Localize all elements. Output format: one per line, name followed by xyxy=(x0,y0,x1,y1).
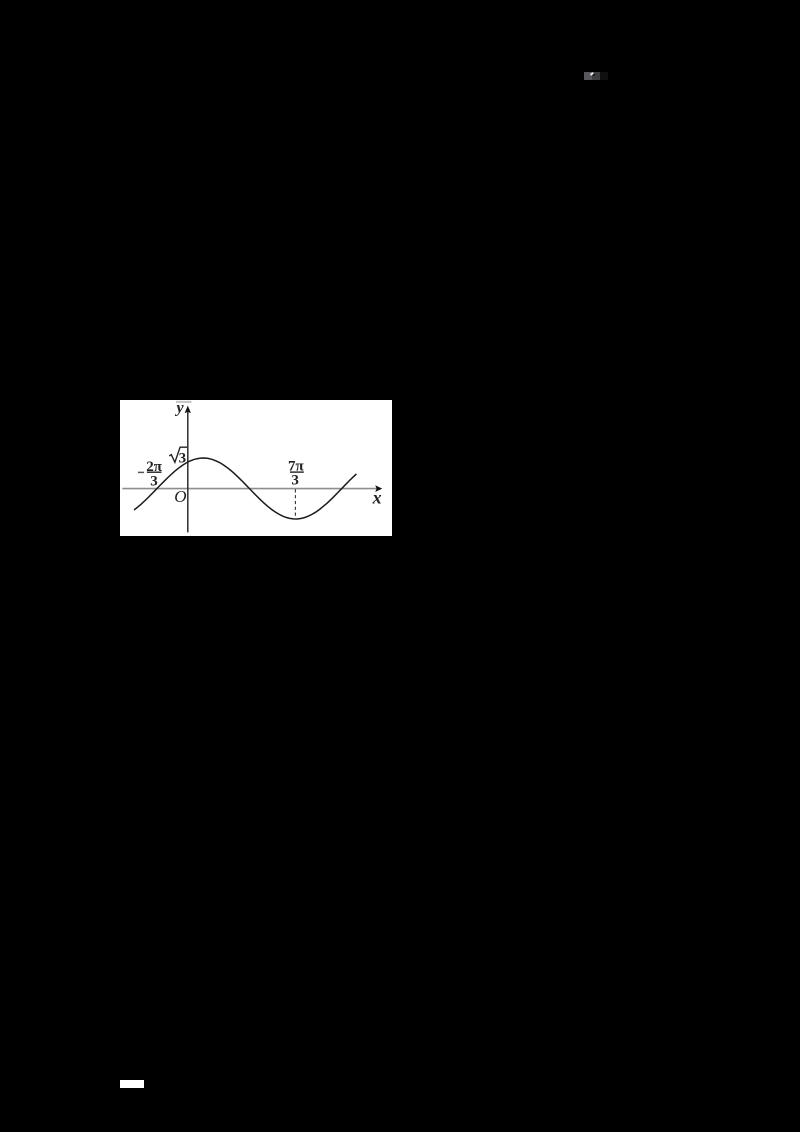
svg-text:3: 3 xyxy=(291,473,299,489)
svg-text:3: 3 xyxy=(150,473,158,489)
svg-text:x: x xyxy=(372,487,382,507)
svg-text:y: y xyxy=(175,400,185,417)
svg-text:3: 3 xyxy=(179,451,187,467)
svg-text:O: O xyxy=(174,487,186,506)
